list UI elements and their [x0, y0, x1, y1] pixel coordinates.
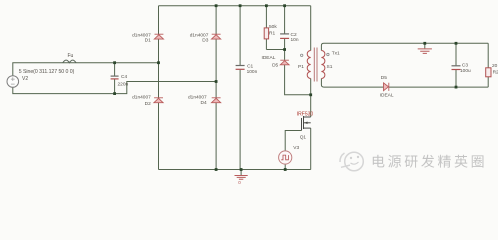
svg-text:C1: C1	[247, 63, 253, 69]
svg-text:100u: 100u	[460, 68, 471, 74]
svg-text:D3: D3	[202, 38, 208, 44]
svg-text:V2: V2	[22, 76, 28, 82]
svg-text:10n: 10n	[291, 37, 299, 43]
svg-text:D2: D2	[145, 101, 151, 107]
svg-text:IRF530: IRF530	[297, 111, 314, 117]
svg-text:D1: D1	[145, 38, 151, 44]
svg-text:P1: P1	[298, 64, 304, 70]
svg-text:d1n4007: d1n4007	[132, 95, 151, 101]
svg-text:220n: 220n	[118, 82, 129, 88]
svg-text:C4: C4	[121, 74, 127, 80]
svg-text:S1: S1	[327, 64, 333, 70]
svg-text:d1n4007: d1n4007	[188, 95, 207, 101]
svg-text:D4: D4	[201, 100, 207, 106]
svg-text:D5: D5	[381, 75, 387, 81]
svg-text:Tx1: Tx1	[332, 50, 340, 56]
svg-text:100n: 100n	[247, 69, 258, 75]
svg-text:R2: R2	[493, 70, 498, 76]
svg-text:R1: R1	[269, 30, 275, 36]
svg-text:IDEAL: IDEAL	[262, 55, 276, 61]
svg-text:IDEAL: IDEAL	[380, 93, 394, 99]
svg-text:5 Sine(0 311.127 50 0 0): 5 Sine(0 311.127 50 0 0)	[19, 69, 75, 75]
svg-text:0: 0	[238, 180, 241, 184]
svg-text:C3: C3	[462, 63, 468, 69]
svg-text:20: 20	[492, 63, 498, 69]
svg-text:Fu: Fu	[68, 53, 74, 59]
svg-text:Q1: Q1	[300, 134, 307, 140]
svg-text:d1n4007: d1n4007	[190, 32, 209, 38]
svg-text:50k: 50k	[269, 24, 277, 30]
svg-text:D5: D5	[272, 63, 278, 69]
svg-text:d1n4007: d1n4007	[132, 32, 151, 38]
svg-text:V3: V3	[293, 145, 299, 151]
